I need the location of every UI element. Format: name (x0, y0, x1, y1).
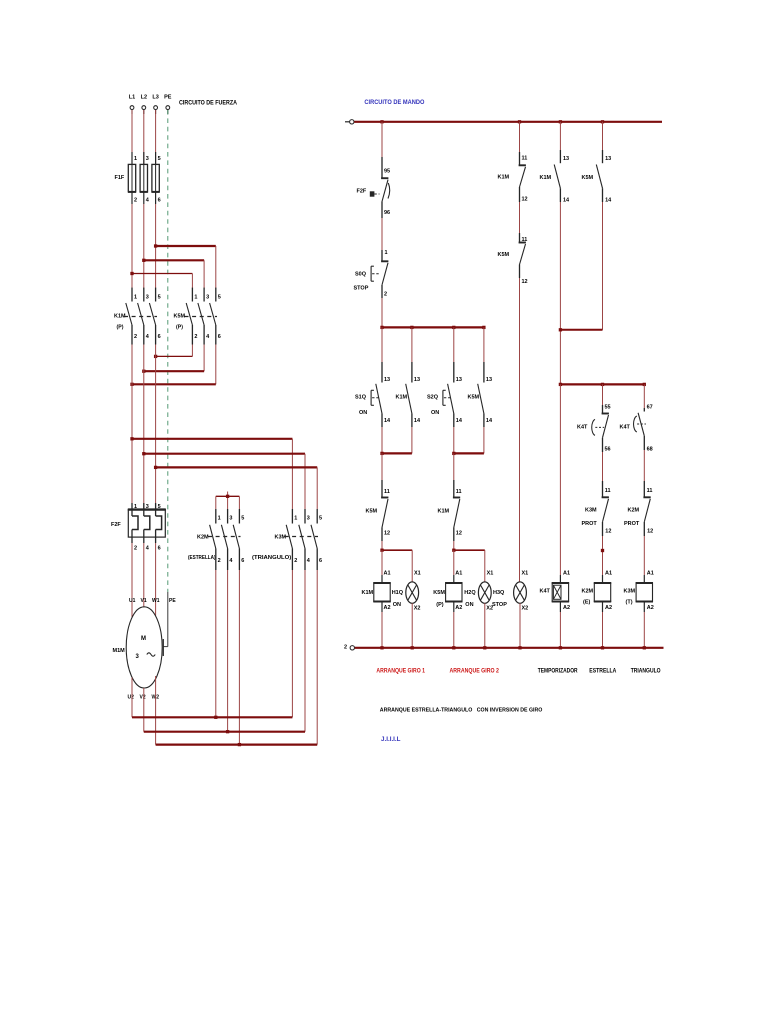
svg-text:X2: X2 (414, 606, 421, 612)
wire S1Q drop (382, 327, 412, 362)
wire lamp tee K5M (454, 549, 485, 551)
wire delta pole bottoms (292, 570, 317, 745)
lamp H2Q (464, 571, 493, 612)
wire L1 top (131, 110, 133, 164)
wire L2 top (143, 110, 145, 164)
svg-text:4: 4 (307, 558, 311, 564)
svg-text:14: 14 (414, 418, 421, 424)
svg-text:STOP: STOP (492, 602, 507, 608)
wire coil bottom K1M (381, 602, 383, 648)
interlock contact K5M 11-12 (366, 480, 391, 541)
svg-text:6: 6 (158, 198, 161, 204)
svg-text:K4T: K4T (620, 425, 631, 431)
svg-text:2: 2 (194, 334, 197, 340)
wire A mid1 (381, 218, 383, 250)
wire C mid (519, 202, 521, 233)
svg-text:K5M: K5M (582, 175, 594, 181)
svg-text:L2: L2 (141, 95, 147, 101)
svg-text:W1: W1 (152, 598, 160, 604)
svg-text:K5M: K5M (366, 509, 378, 515)
svg-text:ARRANQUE GIRO 1: ARRANQUE GIRO 1 (376, 669, 425, 675)
node rail C (518, 120, 521, 123)
svg-text:6: 6 (241, 558, 244, 564)
svg-text:ARRANQUE GIRO 2: ARRANQUE GIRO 2 (450, 669, 500, 675)
latch contact K1M 13-14 (396, 362, 421, 427)
wire S2Q merge (454, 427, 484, 453)
wire timer feed bus (560, 383, 644, 385)
wire branch L1 to K5M pole 1 (132, 274, 192, 289)
svg-text:67: 67 (647, 405, 653, 411)
wire lamp H3Q bottom (519, 603, 521, 648)
svg-text:4: 4 (146, 334, 150, 340)
svg-text:13: 13 (486, 377, 492, 383)
svg-text:3: 3 (146, 295, 149, 301)
svg-text:14: 14 (456, 418, 463, 424)
contactor K1M linkage (124, 316, 157, 318)
svg-text:K2M: K2M (197, 535, 209, 541)
wire coil lead K5M (453, 550, 455, 583)
svg-text:55: 55 (605, 405, 611, 411)
svg-text:H3Q: H3Q (493, 590, 505, 596)
node rail 2 (411, 646, 414, 649)
wire D to K4T coil (559, 384, 561, 583)
caption ARRANQUE GIRO 2 (450, 669, 500, 675)
wire E mid (602, 452, 604, 481)
wire F2F to motor V1 (143, 543, 145, 607)
svg-text:A1: A1 (455, 571, 462, 577)
svg-text:6: 6 (218, 334, 221, 340)
svg-text:1: 1 (134, 295, 137, 301)
lamp H1Q (392, 571, 421, 612)
svg-text:2: 2 (218, 558, 221, 564)
svg-text:1: 1 (294, 516, 297, 522)
svg-text:TRIANGULO: TRIANGULO (631, 669, 661, 675)
svg-text:A1: A1 (605, 571, 612, 577)
fuse F1F pole 1-2 (128, 152, 137, 204)
svg-text:L1: L1 (129, 95, 135, 101)
node lamp tee K1M (380, 549, 383, 552)
title CIRCUITO DE FUERZA (179, 101, 238, 107)
wire L3 mid (155, 204, 157, 289)
node merge S2Q (452, 452, 455, 455)
svg-text:K5M: K5M (498, 252, 510, 258)
wire branch C top (519, 122, 521, 152)
svg-text:4: 4 (206, 334, 210, 340)
svg-text:6: 6 (319, 558, 322, 564)
svg-text:2: 2 (134, 198, 137, 204)
wire branch L1 to K3M pole1 (132, 439, 292, 509)
svg-text:K4T: K4T (540, 589, 551, 595)
svg-text:1: 1 (194, 295, 197, 301)
svg-text:K3M: K3M (585, 508, 597, 514)
svg-text:V2: V2 (140, 695, 146, 701)
svg-text:K5M: K5M (433, 590, 445, 596)
svg-text:L3: L3 (152, 95, 158, 101)
node tee B (452, 326, 455, 329)
node rail A (380, 120, 383, 123)
svg-text:12: 12 (522, 197, 528, 203)
svg-text:A1: A1 (563, 571, 570, 577)
contactor K3M pole 5-6 (311, 509, 322, 570)
wire lamp lead H1Q (411, 550, 413, 582)
node timer bus F (643, 383, 646, 386)
wire D down (559, 202, 561, 384)
svg-text:U2: U2 (128, 695, 135, 701)
wire K5M pole1 to L3 (156, 345, 193, 357)
svg-text:F1F: F1F (115, 175, 125, 181)
svg-text:14: 14 (563, 198, 570, 204)
svg-text:2: 2 (294, 558, 297, 564)
svg-text:CIRCUITO DE MANDO: CIRCUITO DE MANDO (364, 100, 424, 106)
aux contact K5M 13-14 (582, 150, 613, 204)
svg-text:K3M: K3M (275, 535, 287, 541)
svg-text:H1Q: H1Q (392, 590, 404, 596)
svg-text:5: 5 (158, 156, 161, 162)
node rail 2 (559, 646, 562, 649)
wire E drop (602, 384, 604, 405)
svg-text:K1M: K1M (362, 590, 374, 596)
node rail 2 (483, 646, 486, 649)
svg-text:ON: ON (431, 410, 439, 416)
svg-text:12: 12 (456, 531, 462, 537)
svg-text:13: 13 (605, 156, 611, 162)
node tee B2 (482, 326, 485, 329)
node L3 delta branch (154, 466, 157, 469)
wire motor V2 (143, 688, 145, 732)
contactor K1M pole 5-6 (149, 288, 160, 345)
svg-text:12: 12 (522, 279, 528, 285)
node rail 2 (518, 646, 521, 649)
node L1 return (130, 383, 133, 386)
aux contact K1M 11-12 (498, 152, 528, 203)
node lamp tee K5M (452, 549, 455, 552)
svg-text:11: 11 (647, 488, 653, 494)
wire branch L3 to K5M pole 5 (156, 246, 216, 289)
fuse F1F pole 5-6 (152, 152, 161, 204)
svg-text:(E): (E) (583, 600, 591, 606)
svg-text:ON: ON (465, 602, 473, 608)
interlock contact K3M PROT 11-12 (582, 481, 612, 536)
fuse F1F label (115, 175, 125, 181)
svg-text:11: 11 (384, 489, 390, 495)
wire start row tee (382, 326, 484, 328)
push button S2Q 13-14 (427, 362, 463, 427)
wire merge bar S2Q (454, 452, 484, 454)
node L1 delta branch (130, 437, 133, 440)
control rail L1 top (345, 120, 662, 124)
svg-text:3: 3 (307, 516, 310, 522)
svg-text:X1: X1 (487, 571, 494, 577)
svg-text:ON: ON (393, 602, 401, 608)
node tee A (380, 326, 383, 329)
svg-text:(T): (T) (626, 600, 633, 606)
wire F to coil (643, 536, 645, 583)
coil K5M (433, 571, 462, 612)
node star W2 (238, 743, 241, 746)
node star bridge (226, 495, 229, 498)
svg-text:M: M (141, 636, 146, 642)
svg-text:1: 1 (218, 516, 221, 522)
svg-text:J.I.I.I.L: J.I.I.I.L (381, 736, 401, 743)
wire F drop (643, 384, 645, 408)
svg-text:68: 68 (647, 447, 653, 453)
contactor K2M linkage (208, 536, 241, 538)
wire F2F to motor W1 (155, 543, 157, 616)
svg-text:5: 5 (158, 295, 161, 301)
svg-text:A2: A2 (647, 605, 654, 611)
node L3 return (154, 355, 157, 358)
svg-text:3: 3 (136, 654, 140, 660)
star bridge wire (216, 492, 240, 510)
contactor K5M linkage (185, 316, 218, 318)
terminal L1 (129, 95, 135, 115)
title CIRCUITO DE MANDO (364, 100, 424, 106)
svg-text:X2: X2 (522, 606, 529, 612)
svg-text:(TRIANGULO): (TRIANGULO) (252, 555, 291, 561)
timer contact K4T 55-56 (577, 405, 611, 453)
control rail 2 bottom (344, 645, 664, 651)
latch contact K5M 13-14 (468, 362, 493, 427)
svg-text:S0Q: S0Q (355, 272, 367, 278)
svg-text:2: 2 (134, 334, 137, 340)
svg-text:13: 13 (456, 377, 462, 383)
wire motor W2 (155, 676, 157, 745)
wire L3 lower (155, 345, 157, 510)
svg-text:A2: A2 (455, 605, 462, 611)
svg-text:TEMPORIZADOR: TEMPORIZADOR (538, 669, 578, 675)
wire C to lamp (520, 278, 529, 582)
wire K4T coil bottom (559, 602, 561, 648)
wire branch E top (602, 122, 604, 150)
svg-text:(ESTRELLA): (ESTRELLA) (188, 555, 216, 561)
wire branch D top (559, 122, 561, 150)
svg-text:PROT: PROT (624, 521, 640, 527)
wire K5M interlock drop (381, 453, 383, 480)
svg-text:14: 14 (384, 418, 391, 424)
svg-text:4: 4 (146, 198, 150, 204)
interlock contact K2M PROT 11-12 (624, 481, 653, 536)
svg-text:95: 95 (384, 169, 390, 175)
motor PE lead (163, 592, 168, 656)
wire L3 top (155, 110, 157, 164)
svg-text:K2M: K2M (582, 589, 594, 595)
svg-text:STOP: STOP (354, 286, 369, 292)
wire branch L2 to K5M pole 3 (144, 260, 204, 288)
wire F mid (643, 450, 645, 481)
svg-text:(P): (P) (436, 602, 444, 608)
svg-text:S1Q: S1Q (355, 395, 367, 401)
svg-text:56: 56 (605, 447, 611, 453)
wire K5M to coil tee (381, 541, 383, 550)
svg-text:K1M: K1M (498, 175, 510, 181)
svg-text:5: 5 (241, 516, 244, 522)
node timer bus E (601, 383, 604, 386)
svg-text:2: 2 (134, 546, 137, 552)
contactor K3M linkage (285, 536, 319, 538)
wire W2 bus (156, 743, 318, 745)
node L3 branch (154, 244, 157, 247)
wire U2 bus (132, 716, 292, 718)
svg-text:X1: X1 (414, 571, 421, 577)
terminal L3 (152, 95, 158, 115)
fuse F1F pole 3-4 (140, 152, 150, 204)
interlock contact K1M 11-12 (438, 480, 462, 541)
thermal contact F2F 95-96 (357, 157, 391, 218)
caption author (381, 736, 401, 743)
svg-text:CIRCUITO DE FUERZA: CIRCUITO DE FUERZA (179, 101, 238, 107)
wire L1 mid (131, 204, 133, 289)
svg-text:1: 1 (134, 156, 137, 162)
wire E to coil (602, 536, 604, 583)
node L2 return (142, 370, 145, 373)
svg-text:PE: PE (164, 95, 172, 101)
node D merge (559, 328, 562, 331)
motor M1M (113, 598, 177, 701)
wire lamp bottom H1Q (411, 603, 413, 648)
svg-text:U1: U1 (129, 598, 136, 604)
svg-text:K4T: K4T (577, 425, 588, 431)
svg-text:6: 6 (158, 546, 161, 552)
contactor K2M label (188, 535, 216, 562)
contactor K2M pole 3-4 (221, 509, 233, 570)
node star U2 (214, 716, 217, 719)
svg-text:13: 13 (563, 156, 569, 162)
wire merge bar S1Q (382, 452, 412, 454)
svg-text:PE: PE (169, 598, 176, 604)
svg-text:12: 12 (384, 531, 390, 537)
wire V2 bus (144, 731, 305, 733)
svg-text:PROT: PROT (582, 521, 598, 527)
wire K2M coil bottom (602, 602, 604, 648)
node rail 2 (380, 646, 383, 649)
contactor K5M pole 3-4 (198, 288, 210, 345)
svg-text:K5M: K5M (468, 395, 480, 401)
wire S2Q drop (454, 327, 484, 362)
svg-text:5: 5 (158, 504, 161, 510)
svg-text:3: 3 (146, 156, 149, 162)
wire K3M coil bottom (643, 602, 645, 648)
svg-text:11: 11 (605, 488, 611, 494)
terminal PE (164, 95, 172, 115)
wire A mid2 (381, 298, 383, 327)
svg-text:A1: A1 (384, 571, 391, 577)
svg-text:K1M: K1M (540, 175, 552, 181)
terminal L2 (141, 95, 147, 115)
svg-text:12: 12 (647, 529, 653, 535)
node rail 2 (452, 646, 455, 649)
stop button S0Q 1-2 (354, 250, 389, 298)
contactor K3M pole 3-4 (299, 509, 311, 570)
coil K1M (362, 571, 391, 612)
wire L2 mid (143, 204, 145, 289)
svg-text:S2Q: S2Q (427, 395, 439, 401)
wire branch L2 to K3M pole3 (144, 454, 305, 509)
node L2 delta branch (142, 452, 145, 455)
aux contact K1M 13-14 (540, 150, 571, 204)
svg-text:A2: A2 (384, 605, 391, 611)
lamp H3Q (492, 582, 528, 612)
svg-text:X1: X1 (522, 571, 529, 577)
contactor K5M label (174, 314, 186, 331)
svg-text:3: 3 (206, 295, 209, 301)
svg-text:13: 13 (384, 377, 390, 383)
wire motor U2 (131, 678, 133, 718)
svg-text:96: 96 (384, 210, 390, 216)
wire F2F to motor U1 (131, 543, 133, 618)
push button S1Q 13-14 (355, 362, 391, 427)
wire S1Q merge (382, 427, 412, 453)
node tee A2 (410, 326, 413, 329)
svg-text:A2: A2 (605, 605, 612, 611)
svg-text:11: 11 (456, 489, 462, 495)
svg-text:11: 11 (522, 237, 528, 243)
thermal relay F2F (111, 503, 166, 552)
svg-text:3: 3 (229, 516, 232, 522)
svg-text:A1: A1 (647, 571, 654, 577)
svg-text:V1: V1 (141, 598, 147, 604)
svg-text:14: 14 (605, 198, 612, 204)
svg-text:K1M: K1M (396, 395, 408, 401)
node timer bus D (559, 383, 562, 386)
svg-text:(P): (P) (117, 325, 124, 331)
timer contact K4T 67-68 (620, 405, 653, 453)
contactor K1M pole 1-2 (126, 288, 137, 345)
contactor K3M label (252, 535, 291, 562)
svg-text:(P): (P) (176, 325, 183, 331)
svg-text:5: 5 (218, 295, 221, 301)
coil K3M (624, 571, 654, 612)
wire PE dashed (167, 110, 169, 592)
node star V2 (226, 730, 229, 733)
wire L1 lower (131, 345, 133, 510)
contactor K5M pole 5-6 (210, 288, 221, 345)
node rail 2 (601, 646, 604, 649)
wire star pole bottoms (216, 570, 240, 745)
node E lamp tee (601, 549, 604, 552)
svg-text:H2Q: H2Q (464, 590, 476, 596)
svg-text:5: 5 (319, 516, 322, 522)
contactor K1M pole 3-4 (138, 288, 150, 345)
svg-text:14: 14 (486, 418, 493, 424)
caption TRIANGULO (631, 669, 661, 675)
wire L2 lower (143, 345, 145, 510)
svg-text:K3M: K3M (624, 589, 636, 595)
caption TEMPORIZADOR (538, 669, 578, 675)
wire K1M to coil tee (453, 541, 455, 550)
wire branch L3 to K3M pole5 (156, 467, 318, 509)
svg-text:13: 13 (414, 377, 420, 383)
svg-text:ARRANQUE ESTRELLA-TRIANGULO: ARRANQUE ESTRELLA-TRIANGULO CON INVERSIO… (380, 708, 543, 714)
node L1 branch (130, 272, 133, 275)
svg-text:K1M: K1M (438, 509, 450, 515)
svg-text:K2M: K2M (628, 508, 640, 514)
wire E to merge (560, 202, 602, 330)
svg-text:1: 1 (385, 250, 388, 256)
wire lamp bottom H2Q (484, 603, 486, 648)
svg-text:6: 6 (158, 334, 161, 340)
node merge S1Q (380, 452, 383, 455)
contactor K2M pole 1-2 (210, 509, 221, 570)
svg-text:F2F: F2F (111, 522, 121, 528)
svg-text:F2F: F2F (357, 189, 367, 195)
svg-text:A2: A2 (563, 605, 570, 611)
contactor K3M pole 1-2 (286, 509, 297, 570)
svg-text:2: 2 (344, 645, 347, 651)
caption ESTRELLA (589, 669, 617, 675)
node rail E (601, 120, 604, 123)
wire K5M pole5 to L1 (132, 345, 216, 385)
wire lamp tee K1M (382, 549, 412, 551)
